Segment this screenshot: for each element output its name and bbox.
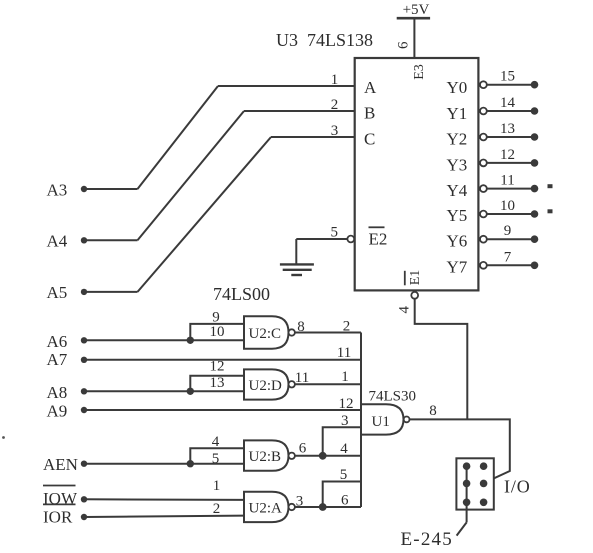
wire A4 horizontal [84, 239, 138, 241]
svg-text:A3: A3 [47, 180, 68, 199]
pin bubble Y6 [480, 236, 487, 243]
wire ground stem [295, 239, 297, 264]
svg-text:U2:B: U2:B [249, 449, 282, 465]
wire Y5 output [487, 213, 535, 215]
gate bubble U2:A [289, 504, 295, 510]
wire U1 input bus [360, 333, 362, 508]
svg-text:15: 15 [500, 69, 515, 85]
terminal dot IOW [81, 496, 87, 502]
pin 5 bubble (E2) [347, 236, 354, 243]
junction dot U2:A out [319, 503, 327, 511]
svg-text:11: 11 [295, 370, 309, 386]
wire E1 down [415, 299, 468, 420]
svg-text:I/O: I/O [504, 477, 531, 497]
svg-text:10: 10 [210, 324, 225, 340]
terminal dot Y4 [531, 185, 539, 193]
svg-text:74LS00: 74LS00 [213, 284, 270, 304]
svg-text:9: 9 [504, 223, 512, 239]
terminal dot Y6 [531, 235, 539, 243]
svg-text:2: 2 [331, 97, 339, 113]
svg-text:U1: U1 [372, 414, 390, 430]
wire Y7 output [487, 264, 535, 266]
svg-text:2: 2 [213, 501, 221, 517]
svg-text:3: 3 [331, 123, 339, 139]
svg-text:A: A [364, 78, 377, 97]
gate bubble U2:C [289, 329, 295, 335]
svg-text:+5V: +5V [403, 2, 430, 18]
svg-text:8: 8 [297, 319, 305, 335]
connector pin dot L2 [463, 480, 471, 488]
svg-text:Y5: Y5 [447, 206, 468, 225]
terminal dot Y7 [531, 262, 539, 270]
svg-text:8: 8 [429, 403, 437, 419]
svg-text:5: 5 [212, 451, 220, 467]
pin bubble Y5 [480, 211, 487, 218]
svg-text:Y4: Y4 [447, 181, 468, 200]
wire U2:A out to U1 pin 6 [295, 506, 361, 508]
svg-text:4: 4 [212, 434, 220, 450]
svg-text:6: 6 [299, 441, 307, 457]
wire E2 to ground [296, 238, 347, 240]
svg-text:E2: E2 [369, 230, 388, 249]
svg-text:6: 6 [395, 41, 411, 49]
wire A3 diagonal [138, 86, 219, 189]
svg-text:Y2: Y2 [447, 130, 468, 149]
svg-text:Y0: Y0 [447, 78, 468, 97]
svg-text:13: 13 [500, 121, 515, 137]
wire Y3 output [487, 162, 535, 164]
svg-text:A4: A4 [47, 232, 68, 251]
svg-text:11: 11 [500, 173, 514, 189]
pin bubble Y4 [480, 185, 487, 192]
wire U2:B out to U1 pin 4 [295, 455, 361, 457]
continuation dash Y5 [548, 209, 553, 213]
junction dot U2:B out [319, 452, 327, 460]
svg-text:Y6: Y6 [447, 232, 468, 251]
junction dot AEN [187, 460, 194, 467]
wire Y0 output [487, 84, 535, 86]
terminal dot A3 [81, 186, 87, 192]
wire A5 to pin 3 [271, 136, 355, 138]
svg-text:Y7: Y7 [447, 258, 468, 277]
wire IOW to pin 1 [84, 498, 244, 501]
svg-text:A6: A6 [47, 332, 68, 351]
NAND gate U2:A body [244, 492, 289, 522]
pin bubble Y3 [480, 160, 487, 167]
terminal dot Y3 [531, 159, 539, 167]
pin bubble Y7 [480, 262, 487, 269]
svg-text:U2:C: U2:C [249, 326, 282, 342]
svg-text:IOW: IOW [43, 489, 78, 508]
IC U3 74LS138 body [355, 58, 479, 290]
wire A7 to U1 pin 11 [84, 359, 361, 361]
wire branch to U1 pin 3 [323, 427, 361, 456]
NAND gate U1 body [361, 404, 404, 434]
wire +5V to pin6 [413, 18, 415, 58]
power +5V bar [397, 17, 430, 20]
svg-text:Y3: Y3 [447, 155, 468, 174]
terminal dot Y0 [531, 81, 539, 89]
wire A8 [84, 390, 244, 392]
wire A6 [84, 339, 244, 341]
svg-text:6: 6 [341, 493, 349, 509]
svg-text:3: 3 [341, 413, 349, 429]
pin bubble Y1 [480, 108, 487, 115]
svg-text:12: 12 [339, 396, 354, 412]
wire Y1 output [487, 110, 535, 112]
svg-text:AEN: AEN [43, 455, 78, 474]
ground symbol [280, 263, 314, 265]
svg-text:14: 14 [500, 95, 516, 111]
svg-text:U2:D: U2:D [249, 378, 283, 394]
gate bubble U2:D [289, 381, 295, 387]
wire U2:D out to U1 pin 1 [295, 383, 361, 385]
wire U2:C out to U1 pin 2 [295, 332, 361, 334]
connector pin dot R3 [480, 499, 488, 507]
svg-text:E-245: E-245 [401, 529, 453, 550]
svg-text:3: 3 [296, 494, 304, 510]
wire A3 horizontal [84, 188, 138, 190]
svg-text:1: 1 [331, 72, 339, 88]
junction dot A8 [187, 388, 194, 395]
wire AEN [84, 463, 244, 465]
connector pin dot L3 [463, 499, 471, 507]
terminal dot Y2 [531, 133, 539, 141]
svg-text:1: 1 [341, 369, 349, 385]
terminal dot A7 [81, 357, 87, 363]
wire U1 output [410, 419, 510, 482]
terminal dot AEN [81, 461, 87, 467]
svg-text:E3: E3 [412, 64, 427, 80]
terminal dot Y1 [531, 107, 539, 115]
terminal dot IOR [81, 514, 87, 520]
wire A4 diagonal [138, 111, 245, 240]
svg-text:U3 74LS138: U3 74LS138 [276, 30, 373, 50]
terminal dot A9 [81, 407, 87, 413]
pin bubble Y2 [480, 134, 487, 141]
pin bubble E1 [411, 292, 418, 299]
pin bubble Y0 [480, 81, 487, 88]
svg-text:A9: A9 [47, 401, 68, 420]
svg-text:U2:A: U2:A [249, 500, 283, 516]
NAND gate U2:B body [244, 440, 289, 470]
connector internal wire [466, 466, 468, 522]
svg-text:4: 4 [396, 306, 412, 314]
svg-text:11: 11 [337, 345, 351, 361]
terminal dot A5 [81, 289, 87, 295]
wire branch to U1 pin 5 [323, 482, 361, 508]
svg-text:Y1: Y1 [447, 104, 468, 123]
svg-text:B: B [364, 104, 375, 123]
svg-text:5: 5 [331, 224, 339, 240]
svg-text:2: 2 [343, 318, 351, 334]
svg-text:74LS30: 74LS30 [369, 389, 417, 405]
gate bubble U1 [404, 417, 410, 423]
wire A8 branch to pin 12 [190, 376, 244, 392]
connector pin dot L1 [463, 462, 471, 470]
svg-text:12: 12 [210, 358, 225, 374]
wire A5 horizontal [84, 291, 138, 293]
terminal dot A8 [81, 388, 87, 394]
svg-text:A5: A5 [47, 283, 68, 302]
wire A3 to pin 1 [218, 85, 355, 87]
svg-text:7: 7 [504, 249, 512, 265]
gate bubble U2:B [289, 453, 295, 459]
svg-text:13: 13 [210, 375, 225, 391]
stray period mark [2, 436, 5, 439]
svg-text:IOR: IOR [43, 508, 73, 527]
wire Y6 output [487, 238, 535, 240]
svg-text:12: 12 [500, 147, 515, 163]
svg-text:C: C [364, 130, 375, 149]
NAND gate U2:C body [244, 316, 289, 348]
junction dot A6 [187, 337, 194, 344]
wire IOR to pin 2 [84, 516, 244, 517]
wire Y2 output [487, 136, 535, 138]
svg-text:1: 1 [213, 478, 221, 494]
svg-text:5: 5 [340, 467, 348, 483]
continuation dash Y4 [548, 184, 553, 188]
connector E-245 body [456, 458, 493, 509]
wire A4 to pin 2 [244, 110, 355, 112]
svg-text:A7: A7 [47, 350, 68, 369]
wire AEN branch to pin 4 [190, 448, 244, 464]
connector pin dot R2 [480, 480, 488, 488]
terminal dot Y5 [531, 210, 539, 218]
terminal dot A4 [81, 237, 87, 243]
wire Y4 output [487, 188, 535, 190]
svg-text:10: 10 [500, 198, 515, 214]
wire connector to E-245 label [457, 522, 467, 535]
svg-text:E1: E1 [408, 270, 423, 286]
svg-text:A8: A8 [47, 383, 68, 402]
wire A9 to U1 pin 12 [84, 409, 361, 411]
connector pin dot R1 [480, 462, 488, 470]
wire A5 diagonal [138, 137, 272, 292]
wire A6 branch to pin 9 [190, 324, 244, 340]
NAND gate U2:D body [244, 369, 289, 399]
svg-text:4: 4 [340, 441, 348, 457]
terminal dot A6 [81, 337, 87, 343]
